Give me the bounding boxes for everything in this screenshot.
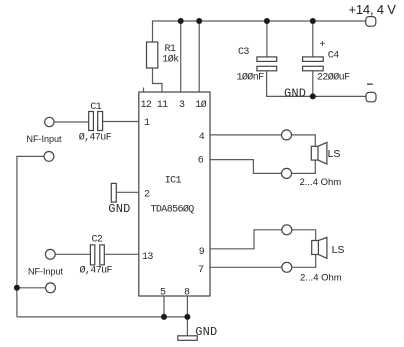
wire input1 gnd to left rail (17, 156, 44, 317)
svg-text:2...4 Ohm: 2...4 Ohm (300, 273, 342, 284)
terminal minus (366, 92, 376, 101)
svg-text:LS: LS (328, 148, 341, 160)
wire pin 9 to speaker 2 (210, 230, 282, 249)
svg-text:13: 13 (142, 252, 153, 263)
svg-text:7: 7 (198, 265, 204, 276)
capacitor C3 plates (257, 57, 277, 62)
wire pin 2 to gnd bar (116, 191, 139, 193)
wire R1 top (152, 21, 154, 42)
wire C4 top (312, 21, 314, 57)
svg-text:GND: GND (284, 87, 306, 101)
node gnd rail C4 (310, 93, 316, 99)
wire R1 bottom to pin 11 (153, 68, 163, 92)
svg-text:12: 12 (141, 100, 152, 111)
wire pin 7 to speaker 2 bottom (210, 266, 282, 268)
wire C3 top (266, 21, 268, 57)
svg-text:+: + (320, 40, 326, 51)
node rail C3 (264, 18, 270, 24)
svg-text:IC1: IC1 (165, 176, 182, 187)
node left rail input2 (14, 285, 20, 291)
speaker LS1 (311, 146, 318, 160)
wire C2 to pin 13 (104, 253, 139, 255)
svg-text:GND: GND (108, 202, 130, 216)
svg-text:R1: R1 (165, 44, 176, 55)
wire pin 3 to rail (180, 21, 182, 92)
wire pin 4 to speaker 1 (210, 134, 282, 136)
svg-text:Ø,47uF: Ø,47uF (80, 265, 113, 277)
terminal +14.4V (366, 17, 376, 27)
terminal circle NF input 2 top (45, 249, 55, 259)
svg-text:11: 11 (157, 100, 168, 111)
svg-text:C4: C4 (328, 51, 339, 62)
svg-text:2...4 Ohm: 2...4 Ohm (300, 177, 342, 188)
wire pin 12 stub (143, 88, 145, 93)
svg-text:TDA856ØQ: TDA856ØQ (151, 204, 195, 216)
wire speaker2 bottom lead (292, 255, 316, 268)
terminal circle speaker1 bottom (282, 168, 292, 178)
wire C1 to pin 1 (103, 121, 139, 123)
capacitor C2 plates (90, 245, 94, 265)
wire speaker1 bottom lead (292, 160, 316, 173)
node bottom rail pin5 (161, 314, 167, 320)
node rail pin10 (196, 18, 202, 24)
op-amp IC1 TDA8560Q body (139, 92, 210, 296)
wire input2 to C2 (55, 253, 90, 255)
terminal circle NF input 1 bottom (44, 152, 54, 162)
capacitor C1 plates (89, 112, 94, 131)
terminal circle NF input 1 top (45, 117, 54, 126)
wire top supply rail (152, 20, 366, 22)
resistor R1 (147, 42, 158, 68)
svg-text:C2: C2 (92, 235, 103, 246)
terminal circle speaker2 bottom (282, 262, 292, 272)
gnd bar at pin 2 (111, 183, 116, 202)
terminal circle NF input 2 bottom (46, 283, 56, 293)
wire input1 to C1 (54, 121, 89, 123)
wire input2 gnd to left rail (17, 287, 46, 289)
svg-text:+14, 4 V: +14, 4 V (349, 2, 397, 17)
node rail pin3 (178, 18, 184, 24)
svg-text:8: 8 (184, 288, 190, 299)
svg-text:LS: LS (332, 244, 345, 256)
wire speaker1 top lead (292, 135, 316, 146)
ground symbol bottom bar (178, 336, 197, 341)
wire pin 8 down to gnd (186, 296, 188, 336)
svg-text:4: 4 (199, 132, 205, 143)
svg-text:3: 3 (179, 100, 185, 111)
node bottom rail pin8 (184, 314, 190, 320)
svg-text:22ØØuF: 22ØØuF (317, 72, 350, 84)
wire pin 5 down (163, 296, 165, 317)
svg-text:9: 9 (199, 247, 205, 258)
svg-text:1ØØnF: 1ØØnF (237, 72, 265, 84)
svg-text:1Ø: 1Ø (195, 99, 206, 111)
svg-text:GND: GND (195, 325, 217, 339)
svg-text:C3: C3 (238, 47, 249, 58)
capacitor C4 plates (303, 57, 324, 62)
wire C3 bottom to gnd rail (267, 71, 366, 97)
svg-text:NF-Input: NF-Input (27, 134, 63, 144)
wire pin 6 to speaker 1 bottom (210, 160, 282, 174)
minus sign (367, 83, 373, 85)
wire bottom rail (17, 316, 188, 318)
svg-text:C1: C1 (90, 102, 101, 113)
svg-text:1Øk: 1Øk (162, 54, 179, 66)
svg-text:NF-Input: NF-Input (28, 267, 64, 277)
terminal circle speaker2 top (282, 225, 292, 235)
svg-text:5: 5 (160, 288, 166, 299)
wire pin 10 to rail (198, 21, 200, 92)
wire C4 bottom (312, 71, 314, 97)
speaker LS2 (312, 241, 319, 255)
wire speaker2 top lead (292, 230, 316, 241)
svg-text:2: 2 (144, 190, 150, 201)
svg-text:Ø,47uF: Ø,47uF (79, 132, 112, 144)
node rail C4 (310, 18, 316, 24)
svg-text:1: 1 (144, 118, 150, 129)
svg-text:6: 6 (198, 156, 204, 167)
terminal circle speaker1 top (282, 130, 292, 140)
